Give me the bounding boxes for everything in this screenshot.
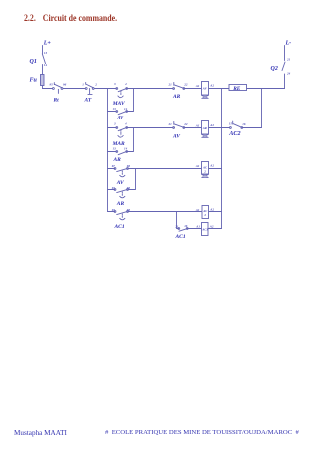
svg-text:AV: AV <box>172 133 181 139</box>
svg-text:AT: AT <box>84 98 92 104</box>
svg-text:AR: AR <box>202 126 207 130</box>
svg-text:3: 3 <box>113 82 116 86</box>
svg-text:16: 16 <box>184 224 188 228</box>
svg-text:Q2: Q2 <box>271 66 278 72</box>
svg-text:L+: L+ <box>43 41 52 47</box>
svg-text:24: 24 <box>286 72 291 76</box>
svg-text:AR: AR <box>172 94 181 100</box>
svg-text:Fu: Fu <box>30 78 38 84</box>
svg-text:21: 21 <box>168 122 173 126</box>
svg-text:AV: AV <box>117 115 125 120</box>
svg-text:AR: AR <box>116 201 125 207</box>
svg-text:AC2: AC2 <box>228 130 240 137</box>
svg-text:95: 95 <box>50 82 54 86</box>
svg-text:A2: A2 <box>209 225 214 229</box>
svg-text:68: 68 <box>127 186 131 190</box>
svg-text:1: 1 <box>82 83 84 87</box>
svg-text:21: 21 <box>286 58 291 62</box>
svg-text:A1: A1 <box>195 225 200 229</box>
svg-text:AC1: AC1 <box>114 224 125 230</box>
svg-text:Rt: Rt <box>53 98 60 104</box>
svg-text:13: 13 <box>113 147 117 151</box>
svg-text:A1: A1 <box>195 124 200 128</box>
svg-text:AC1: AC1 <box>201 228 208 232</box>
svg-text:A2: A2 <box>209 208 214 212</box>
svg-text:14: 14 <box>124 107 128 111</box>
svg-text:AC1: AC1 <box>175 234 186 240</box>
svg-text:14: 14 <box>44 63 48 67</box>
svg-text:A1: A1 <box>195 84 200 88</box>
svg-text:3: 3 <box>113 122 116 126</box>
svg-text:A1: A1 <box>195 164 200 168</box>
svg-text:AR: AR <box>113 157 122 163</box>
svg-text:21: 21 <box>168 82 173 86</box>
svg-text:21: 21 <box>174 224 179 228</box>
svg-text:67: 67 <box>112 208 116 212</box>
svg-text:4: 4 <box>124 82 127 86</box>
svg-text:96: 96 <box>63 82 67 86</box>
svg-text:13: 13 <box>44 51 48 55</box>
svg-text:Q1: Q1 <box>30 59 37 65</box>
svg-text:A1: A1 <box>195 208 200 212</box>
svg-text:68: 68 <box>127 208 131 212</box>
svg-text:13: 13 <box>113 107 117 111</box>
svg-text:22: 22 <box>183 82 188 86</box>
svg-text:A2: A2 <box>209 164 214 168</box>
svg-text:4: 4 <box>124 122 127 126</box>
svg-text:16: 16 <box>242 122 246 126</box>
svg-text:A2: A2 <box>209 123 214 127</box>
svg-text:15: 15 <box>229 122 233 126</box>
svg-text:67: 67 <box>112 164 116 168</box>
svg-text:68: 68 <box>127 164 131 168</box>
svg-text:2: 2 <box>94 83 97 87</box>
svg-text:L-: L- <box>285 41 292 47</box>
svg-text:AV: AV <box>116 180 125 186</box>
svg-text:22: 22 <box>183 122 188 126</box>
svg-text:RE: RE <box>232 86 241 92</box>
svg-text:A2: A2 <box>209 84 214 88</box>
svg-text:67: 67 <box>112 186 116 190</box>
svg-text:14: 14 <box>124 147 128 151</box>
